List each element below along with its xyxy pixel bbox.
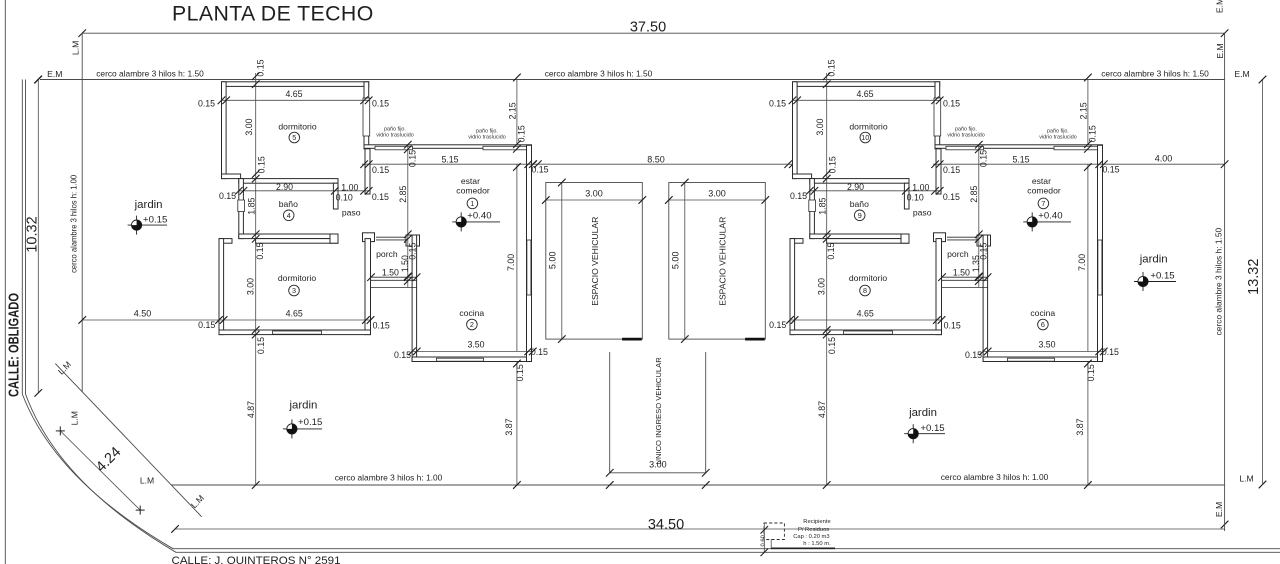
svg-text:vidrio traslucido: vidrio traslucido: [947, 133, 984, 139]
window dormitorio 10 right: [934, 98, 941, 136]
dim line 5.15: [933, 163, 1105, 165]
svg-text:h : 1.50 m.: h : 1.50 m.: [803, 541, 831, 547]
porch step: [942, 286, 988, 288]
svg-text:cerco alambre 3 hilos h: 1.50: cerco alambre 3 hilos h: 1.50: [1101, 69, 1209, 79]
svg-text:9: 9: [858, 211, 862, 220]
espacio vehicular 2 outline: [669, 183, 766, 340]
svg-text:0.15: 0.15: [827, 156, 837, 173]
svg-text:comedor: comedor: [456, 185, 490, 195]
street outer edge left: [4, 0, 6, 564]
svg-text:3.50: 3.50: [467, 340, 484, 350]
fence line top (cerco): [40, 79, 1225, 81]
wall jamb bano 4: [330, 234, 338, 243]
wall dormitorio 10 top: [793, 82, 940, 87]
svg-text:0.15: 0.15: [373, 320, 390, 330]
svg-text:5.00: 5.00: [670, 252, 680, 270]
wall bano 4 right: [333, 183, 338, 209]
dim ticks porch 1.50: [367, 273, 375, 281]
dim line 4.65 dormitorio 3: [219, 319, 371, 321]
svg-text:ESPACIO VEHICULAR: ESPACIO VEHICULAR: [590, 217, 600, 306]
svg-text:baño: baño: [279, 199, 298, 209]
svg-text:4.65: 4.65: [286, 309, 303, 319]
wall estar 1 west upper: [365, 149, 370, 194]
property line ochava diagonal: [55, 364, 201, 517]
dim line 13.32 east: [1262, 80, 1264, 485]
window east wall: [1098, 240, 1102, 295]
svg-text:jardin: jardin: [288, 399, 317, 411]
wall estar 1 west: [412, 235, 417, 362]
svg-text:2.15: 2.15: [507, 102, 517, 119]
wall dormitorio 3 east: [365, 239, 371, 335]
svg-text:0.15: 0.15: [943, 192, 960, 202]
wall estar 7 west: [983, 235, 988, 362]
svg-text:comedor: comedor: [1027, 185, 1061, 195]
svg-text:0.15: 0.15: [827, 337, 837, 354]
svg-text:E.M: E.M: [1215, 0, 1225, 13]
espacio vehicular 1 dim 3.00: [546, 199, 643, 201]
svg-text:ESPACIO VEHICULAR: ESPACIO VEHICULAR: [718, 217, 728, 306]
wall estar/cocina east: [1098, 145, 1103, 361]
svg-text:Recipiente: Recipiente: [803, 519, 830, 525]
svg-text:4.50: 4.50: [134, 309, 152, 319]
house 1 (left): [198, 59, 549, 488]
svg-text:paso: paso: [342, 208, 361, 218]
svg-text:jardin: jardin: [908, 407, 937, 419]
svg-text:dormitorio: dormitorio: [849, 121, 887, 131]
svg-text:0.60: 0.60: [761, 535, 767, 546]
svg-text:4.65: 4.65: [285, 89, 302, 99]
espacio vehicular 2 dim 5.00: [684, 183, 686, 340]
svg-text:4.00: 4.00: [1155, 154, 1173, 164]
svg-text:34.50: 34.50: [648, 517, 684, 533]
svg-text:10: 10: [861, 133, 869, 142]
svg-text:13.32: 13.32: [1246, 259, 1262, 295]
svg-text:1.50: 1.50: [400, 255, 410, 272]
svg-text:0.15: 0.15: [769, 98, 786, 108]
dim chain left vertical: [255, 73, 257, 485]
dim line 37.50 overall: [82, 32, 1224, 34]
svg-text:cerco alambre 3 hilos h: 1.00: cerco alambre 3 hilos h: 1.00: [68, 175, 78, 273]
porch step: [371, 286, 417, 288]
dim chain porch vertical 2.85: [407, 145, 409, 287]
window dormitorio 5 right: [363, 98, 370, 136]
porch column NW: [934, 233, 946, 242]
dim line 3.00 driveway: [610, 472, 706, 474]
wall dormitorio 5 left: [222, 82, 227, 179]
svg-text:0.15: 0.15: [372, 98, 389, 108]
level mark estar +0.40: [452, 221, 500, 223]
dim line 3.50 cocina: [983, 350, 1104, 352]
svg-text:cerco alambre 3 hilos h: 1.00: cerco alambre 3 hilos h: 1.00: [941, 472, 1049, 482]
svg-text:0.15: 0.15: [790, 191, 807, 201]
window estar 1 top 1: [375, 146, 413, 150]
svg-text:E.M: E.M: [47, 69, 62, 79]
room number 7: [1038, 198, 1049, 209]
espacio vehicular 1 dim 5.00: [561, 183, 563, 340]
svg-text:L.M: L.M: [71, 41, 81, 55]
house 2 (right): [769, 59, 1120, 488]
dim ticks porch 1.50: [938, 273, 946, 281]
wall dormitorio 8 bottom: [790, 330, 942, 335]
svg-text:+0.15: +0.15: [920, 423, 944, 434]
svg-text:0.15: 0.15: [1102, 164, 1119, 174]
svg-text:vidrio traslucido: vidrio traslucido: [376, 133, 413, 139]
dim line 4.65 dormitorio 8: [790, 319, 942, 321]
room number 6: [1038, 319, 1049, 330]
wall dormitorio 3 top B: [256, 239, 339, 244]
svg-text:L.M: L.M: [1239, 473, 1253, 483]
svg-text:0.15: 0.15: [255, 59, 265, 76]
dim line 4.65 dormitorio 10: [793, 99, 940, 101]
svg-text:4.87: 4.87: [246, 401, 256, 418]
wall dormitorio 8 left: [790, 239, 795, 335]
svg-text:dormitorio: dormitorio: [278, 121, 316, 131]
svg-text:0.15: 0.15: [256, 156, 266, 173]
wall dormitorio 3 top A: [219, 239, 232, 244]
svg-text:cerco alambre 3 hilos h: 1.00: cerco alambre 3 hilos h: 1.00: [335, 473, 443, 483]
svg-text:7: 7: [1041, 199, 1045, 208]
svg-text:3.00: 3.00: [585, 189, 603, 199]
svg-text:0.15: 0.15: [372, 192, 389, 202]
svg-text:cocina: cocina: [1030, 308, 1055, 318]
svg-text:37.50: 37.50: [630, 19, 666, 35]
svg-text:baño: baño: [850, 199, 869, 209]
svg-text:8: 8: [863, 286, 867, 295]
svg-text:PLANTA DE TECHO: PLANTA DE TECHO: [172, 2, 374, 26]
svg-text:3.00: 3.00: [815, 118, 825, 135]
svg-text:jardin: jardin: [1139, 254, 1168, 266]
wall estar 1 top: [364, 145, 532, 149]
svg-text:+0.40: +0.40: [467, 210, 491, 221]
dim chain right vertical: [516, 80, 518, 146]
wall estar 7 west upper: [936, 149, 941, 194]
svg-text:1: 1: [470, 199, 474, 208]
level mark jardin east: [1134, 281, 1176, 283]
room number 9: [854, 210, 865, 221]
svg-text:+0.15: +0.15: [1150, 270, 1174, 281]
porch beam north: [947, 236, 979, 238]
dim line 2.90/1.00: [239, 190, 369, 192]
level mark jardin south-right: [904, 433, 945, 435]
svg-text:0.15: 0.15: [256, 337, 266, 354]
svg-text:8.50: 8.50: [647, 155, 665, 165]
svg-text:2.15: 2.15: [1078, 102, 1088, 119]
espacio vehicular 1 outline: [546, 183, 643, 340]
svg-text:+0.15: +0.15: [143, 214, 167, 225]
espacio vehicular 2 dim 3.00: [669, 199, 766, 201]
wall cocina 6 bottom: [983, 357, 1102, 362]
svg-text:0.15: 0.15: [517, 125, 527, 142]
wall dormitorio 5 right: [364, 82, 369, 149]
svg-text:cerco alambre 3 hilos h: 1.50: cerco alambre 3 hilos h: 1.50: [96, 69, 204, 79]
svg-text:2.90: 2.90: [276, 182, 293, 192]
svg-text:cerco alambre 3 hilos h: 1.50: cerco alambre 3 hilos h: 1.50: [1213, 227, 1223, 335]
svg-text:1.50: 1.50: [382, 268, 399, 278]
svg-text:0.15: 0.15: [1086, 364, 1096, 381]
svg-text:1.50: 1.50: [953, 268, 970, 278]
room number 10: [860, 132, 871, 143]
porch column NE: [977, 235, 991, 246]
svg-text:5.15: 5.15: [441, 155, 458, 165]
svg-text:0.15: 0.15: [978, 150, 988, 167]
svg-text:0.15: 0.15: [531, 164, 548, 174]
wall bano 4 top: [239, 179, 338, 184]
svg-text:E.M: E.M: [1215, 43, 1225, 58]
svg-text:porch: porch: [376, 249, 398, 259]
svg-text:+0.40: +0.40: [1038, 210, 1062, 221]
svg-text:+0.15: +0.15: [298, 417, 322, 428]
dim line 4.65 dormitorio 5: [222, 99, 369, 101]
wall bano 4 left: [239, 179, 244, 239]
wall dormitorio 10 right: [935, 82, 940, 149]
dim line 8.50: [534, 163, 793, 165]
wall dormitorio 8 east: [936, 239, 942, 335]
svg-text:4.65: 4.65: [857, 309, 874, 319]
svg-text:0.15: 0.15: [407, 150, 417, 167]
svg-text:0.15: 0.15: [198, 98, 215, 108]
svg-text:CALLE: J. QUINTEROS N° 2591: CALLE: J. QUINTEROS N° 2591: [172, 555, 341, 564]
svg-text:2: 2: [470, 320, 474, 329]
wall bano 9 bottom: [810, 234, 909, 239]
svg-text:0.15: 0.15: [394, 350, 411, 360]
svg-text:UNICO INGRESO VEHICULAR: UNICO INGRESO VEHICULAR: [654, 357, 663, 465]
svg-text:1.00: 1.00: [341, 182, 358, 192]
dim chain right vertical: [1087, 80, 1089, 146]
window cocina 6 bottom: [1008, 358, 1055, 361]
svg-text:5.00: 5.00: [547, 252, 557, 270]
recipiente leader: [770, 540, 772, 549]
window dormitorio 3 bottom: [273, 331, 322, 334]
wall estar 7 top: [935, 145, 1103, 149]
window east wall: [527, 240, 531, 295]
level mark estar +0.40: [1023, 221, 1071, 223]
svg-text:7.00: 7.00: [1077, 254, 1087, 271]
wall estar/cocina east: [527, 145, 532, 361]
svg-text:0.15: 0.15: [198, 320, 215, 330]
wall bano 9 right: [904, 183, 909, 209]
dim chain left vertical: [826, 73, 828, 485]
room number 2: [467, 319, 478, 330]
svg-text:4.65: 4.65: [856, 89, 873, 99]
espacio vehicular 1 threshold: [622, 338, 642, 341]
boundary line east (E.M): [1224, 33, 1226, 531]
svg-text:5: 5: [292, 133, 296, 142]
svg-text:1.85: 1.85: [817, 198, 827, 215]
wall dormitorio 3 bottom: [219, 330, 371, 335]
svg-text:0.15: 0.15: [1088, 125, 1098, 142]
svg-text:4: 4: [287, 211, 291, 220]
espacio vehicular 2 threshold: [745, 338, 765, 341]
svg-text:porch: porch: [947, 249, 969, 259]
window estar 7 top 1: [946, 146, 984, 150]
wall bano 4 bottom: [239, 234, 338, 239]
svg-text:0.15: 0.15: [1102, 347, 1119, 357]
window bano 4 left: [238, 200, 245, 212]
porch column NE: [406, 235, 420, 246]
svg-text:E.M: E.M: [1214, 502, 1224, 517]
driveway line right: [705, 352, 707, 473]
svg-text:1.85: 1.85: [246, 198, 256, 215]
svg-text:1.35: 1.35: [971, 255, 981, 272]
svg-text:0.15: 0.15: [515, 364, 525, 381]
porch column NW: [363, 233, 375, 242]
svg-text:vidrio traslucido: vidrio traslucido: [468, 135, 505, 141]
dim chain porch vertical 2.85: [978, 145, 980, 287]
svg-text:3.00: 3.00: [244, 118, 254, 135]
svg-text:L.M: L.M: [140, 476, 154, 486]
svg-text:dormitorio: dormitorio: [849, 273, 887, 283]
svg-text:3.87: 3.87: [504, 418, 514, 435]
dim line 5.15: [362, 163, 534, 165]
porch south edge: [371, 276, 417, 278]
svg-text:2.85: 2.85: [969, 186, 979, 203]
svg-text:L.M: L.M: [70, 411, 80, 425]
room number 4: [283, 210, 294, 221]
svg-text:0.10: 0.10: [907, 193, 924, 203]
svg-text:P/ Residuos: P/ Residuos: [798, 527, 829, 533]
wall cocina 2 bottom: [412, 357, 531, 362]
window cocina 2 bottom: [437, 358, 484, 361]
svg-text:0.15: 0.15: [943, 98, 960, 108]
wall dormitorio 8 top B: [827, 239, 910, 244]
svg-text:cerco alambre 3 hilos h: 1.50: cerco alambre 3 hilos h: 1.50: [545, 69, 653, 79]
wall dormitorio 8 top A: [790, 239, 803, 244]
svg-text:3.00: 3.00: [246, 278, 256, 295]
svg-text:6: 6: [1041, 320, 1045, 329]
svg-text:5.15: 5.15: [1012, 155, 1029, 165]
svg-text:3.50: 3.50: [1038, 340, 1055, 350]
dim line 34.50: [175, 528, 1225, 530]
recipiente dashed box: [764, 523, 784, 540]
svg-text:0.15: 0.15: [944, 320, 961, 330]
dim line 4.00 jardin east: [1105, 163, 1225, 165]
svg-text:2.85: 2.85: [398, 186, 408, 203]
svg-text:0.15: 0.15: [943, 165, 960, 175]
svg-text:0.10: 0.10: [336, 193, 353, 203]
dim line 4.50 jardin west: [82, 319, 219, 321]
dim line 3.50 cocina: [412, 350, 533, 352]
porch beam north: [376, 236, 408, 238]
svg-text:Cap : 0.20 m3: Cap : 0.20 m3: [793, 534, 829, 540]
svg-text:7.00: 7.00: [506, 254, 516, 271]
svg-text:paso: paso: [913, 208, 932, 218]
svg-text:3.00: 3.00: [817, 278, 827, 295]
svg-text:0.15: 0.15: [372, 165, 389, 175]
wall bano 9 left: [810, 179, 815, 239]
svg-text:4.87: 4.87: [817, 401, 827, 418]
property line west (L.M): [81, 33, 83, 392]
wall dormitorio 10 left: [793, 82, 798, 179]
dim line 10.32: [37, 80, 39, 393]
wall dormitorio 10 bottom: [793, 174, 812, 179]
level mark jardin south-left: [283, 428, 322, 430]
svg-text:3: 3: [292, 286, 296, 295]
dim line 2.90/1.00: [810, 190, 940, 192]
wall dormitorio 5 top: [222, 82, 369, 87]
svg-text:cocina: cocina: [459, 308, 484, 318]
svg-text:jardin: jardin: [134, 199, 163, 211]
svg-text:1.00: 1.00: [912, 182, 929, 192]
room number 3: [289, 285, 300, 296]
svg-text:2.90: 2.90: [847, 182, 864, 192]
wall dormitorio 5 bottom: [222, 174, 241, 179]
window estar 1 top 2: [483, 146, 528, 150]
svg-text:3.00: 3.00: [708, 189, 726, 199]
room number 5: [289, 132, 300, 143]
recipiente dim 0.60: [763, 523, 765, 552]
porch south edge: [942, 276, 988, 278]
svg-text:0.15: 0.15: [769, 320, 786, 330]
room number 8: [860, 285, 871, 296]
svg-text:0.15: 0.15: [826, 242, 836, 259]
svg-text:0.15: 0.15: [826, 59, 836, 76]
svg-text:CALLE: OBLIGADO: CALLE: OBLIGADO: [6, 293, 23, 397]
svg-text:dormitorio: dormitorio: [278, 273, 316, 283]
svg-text:0.15: 0.15: [531, 347, 548, 357]
window estar 7 top 2: [1054, 146, 1099, 150]
svg-text:0.15: 0.15: [965, 350, 982, 360]
window bano 9 left: [809, 200, 816, 212]
svg-text:0.15: 0.15: [255, 242, 265, 259]
driveway line left: [609, 352, 611, 473]
level mark jardin west: [128, 224, 167, 226]
wall jamb bano 9: [901, 234, 909, 243]
svg-text:vidrio traslucido: vidrio traslucido: [1039, 135, 1076, 141]
room number 1: [467, 198, 478, 209]
wall dormitorio 3 left: [219, 239, 224, 335]
svg-text:10.32: 10.32: [25, 216, 41, 252]
svg-text:3.87: 3.87: [1075, 418, 1085, 435]
wall bano 9 top: [810, 179, 909, 184]
dim line 4.24 ochava: [60, 431, 140, 510]
svg-text:0.15: 0.15: [219, 191, 236, 201]
svg-text:E.M: E.M: [1234, 69, 1249, 79]
window dormitorio 8 bottom: [844, 331, 893, 334]
fence line bottom (cerco 1.00): [171, 484, 1224, 486]
